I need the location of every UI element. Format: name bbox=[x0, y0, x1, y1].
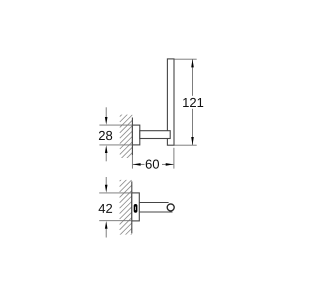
wall line (bottom view) bbox=[131, 181, 133, 233]
dimension arrows 28 bbox=[105, 107, 108, 161]
extension lines for dim 28 bbox=[99, 125, 132, 145]
label 60 bbox=[146, 160, 159, 169]
label 28 bbox=[99, 131, 112, 140]
wall line (top view) bbox=[131, 118, 133, 156]
rod end cap circle (bottom view) bbox=[167, 204, 174, 211]
wall hatch (bottom view) bbox=[120, 169, 132, 246]
extension lines for dim 121 bbox=[174, 59, 196, 145]
wall hatch (top view) bbox=[120, 104, 133, 171]
dimension line 121 bbox=[183, 59, 204, 145]
rod (bottom view) bbox=[139, 203, 172, 213]
label 121 bbox=[183, 98, 203, 107]
dimension line 60 bbox=[133, 163, 174, 166]
dimension arrows 42 bbox=[105, 177, 108, 238]
extension line right for dim 60 bbox=[132, 148, 174, 169]
set screw (bottom view) bbox=[134, 204, 138, 213]
vertical bar (top view) bbox=[167, 59, 174, 145]
mounting plate (bottom view) bbox=[132, 193, 140, 221]
extension lines for dim 42 bbox=[99, 193, 132, 221]
label 42 bbox=[99, 204, 113, 213]
support arm (top view) bbox=[140, 131, 170, 139]
mounting plate (top view) bbox=[132, 125, 139, 145]
